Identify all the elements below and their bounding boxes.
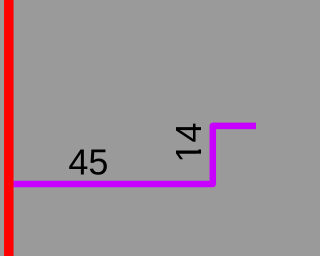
magenta road: horizontal segment, bend up, horizontal to right edge xyxy=(8,126,256,184)
svg-text:45: 45 xyxy=(68,142,108,183)
svg-text:14: 14 xyxy=(168,123,209,163)
red road: vertical line at left edge xyxy=(4,0,14,256)
patches: remove foot serif of "1" glyph (env font variant) xyxy=(197,143,203,149)
